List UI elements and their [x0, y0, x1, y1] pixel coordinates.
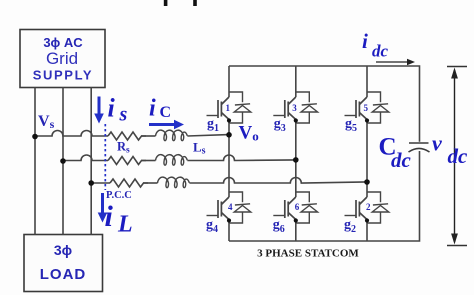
- svg-text:Ls: Ls: [193, 140, 206, 157]
- svg-text:C: C: [160, 104, 172, 121]
- svg-text:i: i: [108, 94, 116, 123]
- svg-text:i: i: [149, 96, 156, 122]
- svg-text:s: s: [119, 104, 128, 126]
- svg-text:i: i: [105, 200, 114, 233]
- svg-text:3 PHASE STATCOM: 3 PHASE STATCOM: [257, 248, 359, 260]
- svg-text:P.C.C: P.C.C: [106, 190, 132, 201]
- svg-text:Vo: Vo: [239, 123, 259, 144]
- svg-text:L: L: [117, 212, 133, 238]
- svg-text:Vs: Vs: [38, 113, 55, 131]
- svg-text:Rs: Rs: [117, 140, 130, 156]
- svg-text:dc: dc: [448, 144, 469, 168]
- svg-text:i: i: [362, 29, 368, 53]
- svg-text:dc: dc: [391, 148, 412, 172]
- svg-text:dc: dc: [372, 42, 389, 61]
- svg-text:v: v: [432, 131, 442, 156]
